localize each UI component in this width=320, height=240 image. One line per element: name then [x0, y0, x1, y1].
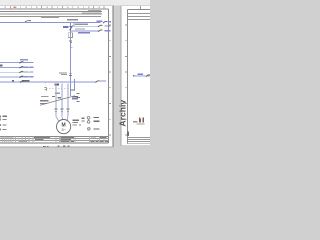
net label row2	[82, 12, 101, 13]
wire name squiggle on N rail	[25, 21, 31, 22]
cable end label dark	[72, 96, 78, 97]
cross reference aux2	[105, 30, 111, 31]
wire L-row1	[0, 10, 102, 12]
viewer background	[0, 0, 150, 150]
phase wire 3	[67, 84, 69, 117]
cable end label blue	[72, 98, 78, 99]
page 1 paper	[0, 6, 114, 148]
interruption arrow PE rail end	[96, 81, 100, 83]
wire aux row1	[70, 25, 99, 27]
PE rail (blue bus)	[0, 81, 97, 83]
label above aux row2	[75, 28, 85, 29]
switch Q1 label	[55, 84, 59, 86]
left wire 3	[0, 71, 31, 73]
interruption arrow N rail	[103, 21, 107, 23]
trip release dotted drop	[44, 83, 46, 88]
phase wire 2	[61, 84, 63, 117]
title block page 1	[0, 136, 109, 140]
left wire 4	[0, 76, 31, 78]
interruption arrow PE rail	[20, 81, 24, 83]
motor M1	[57, 120, 71, 134]
note block right	[77, 93, 80, 94]
overload device on feeder	[69, 72, 72, 75]
page 2 header rows	[128, 12, 150, 14]
tap tick on feeder	[70, 46, 72, 49]
phase bend 3	[66, 116, 69, 120]
parallel return wire	[73, 79, 75, 90]
page 2 paper	[121, 6, 150, 147]
note text row	[67, 19, 78, 20]
page 2 zone ticks left	[125, 25, 128, 135]
contact marks on feeder	[69, 40, 72, 41]
marks below frame	[43, 146, 46, 147]
faint label above left wire 1	[20, 59, 28, 60]
wire aux row2	[70, 30, 99, 32]
page 2 margin mark	[127, 132, 129, 136]
page 1 drawing frame	[0, 8, 109, 10]
cross reference PE rail	[100, 80, 106, 81]
left stub 1	[0, 115, 2, 117]
interruption arrow page 2 wire	[146, 75, 150, 77]
wire L-row2	[0, 13, 102, 15]
left wire 2	[0, 66, 31, 68]
K1 label left	[82, 118, 85, 119]
vertical feeder wire	[69, 22, 71, 90]
left stub 3	[0, 124, 2, 126]
cross references left wires	[24, 62, 33, 78]
circuit breaker F1	[70, 26, 73, 31]
wire drop to aux row	[73, 22, 75, 26]
phase bend 2	[62, 116, 63, 120]
breaker F1 label	[63, 26, 69, 28]
page 2 wire label	[138, 74, 144, 76]
interruption arrow aux1	[98, 25, 103, 27]
svg-text:3~: 3~	[61, 127, 66, 132]
left wire 1	[0, 62, 31, 64]
label above aux row1	[75, 24, 88, 25]
junction bracket	[70, 90, 75, 91]
red marker element	[139, 117, 141, 119]
device box on feeder	[68, 33, 72, 38]
N rail (blue bus)	[0, 21, 101, 23]
contact label small	[55, 93, 60, 94]
zone ticks right border page 1	[109, 25, 112, 135]
zone ticks top	[10, 6, 104, 9]
overload device label left	[59, 72, 67, 73]
thermistor connector K2	[88, 128, 91, 131]
net label N rail end	[97, 21, 103, 22]
clipped label at screen edge	[0, 65, 2, 67]
page 2 frame	[128, 9, 150, 11]
interruption arrows left wires	[20, 62, 24, 78]
svg-text:Archiv: Archiv	[118, 100, 128, 127]
motor M1 labels	[73, 120, 80, 121]
linkage dashed line	[46, 88, 69, 90]
phase bend 1	[56, 116, 59, 121]
wire stub below junction	[69, 90, 71, 96]
label below left	[79, 124, 81, 125]
terminal marks X1	[55, 109, 70, 112]
page 2 footer rows	[128, 137, 150, 139]
PE rail label dots	[12, 80, 14, 81]
left stub 4	[0, 129, 2, 131]
orange zone mark	[14, 6, 16, 8]
net label row1	[88, 10, 101, 11]
K1 pin labels	[94, 117, 100, 118]
page 2 wire left tick	[133, 75, 134, 76]
trip release symbol	[44, 88, 46, 91]
label below aux row2	[78, 32, 90, 34]
net label row3	[41, 17, 59, 18]
interruption arrow aux2	[98, 30, 103, 32]
wire L-row3	[0, 15, 101, 17]
K2 pin label	[94, 128, 100, 129]
cross reference aux1	[105, 25, 111, 26]
cable W1 labels	[41, 96, 49, 97]
thermistor connector K1	[87, 116, 90, 119]
page 2 zone tick top	[140, 6, 142, 10]
zone numbers (tiny)	[5, 7, 100, 9]
cable W1 diagonal	[40, 96, 75, 106]
page 2 wire	[134, 75, 151, 77]
phase wire 1	[55, 84, 57, 117]
left stub 2	[0, 119, 2, 121]
cross reference N rail	[108, 21, 112, 22]
